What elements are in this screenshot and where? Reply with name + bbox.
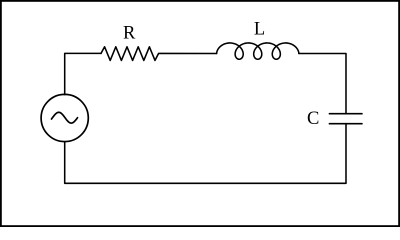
svg-text:L: L xyxy=(254,19,265,39)
svg-text:R: R xyxy=(123,24,136,44)
svg-text:C: C xyxy=(307,109,319,129)
